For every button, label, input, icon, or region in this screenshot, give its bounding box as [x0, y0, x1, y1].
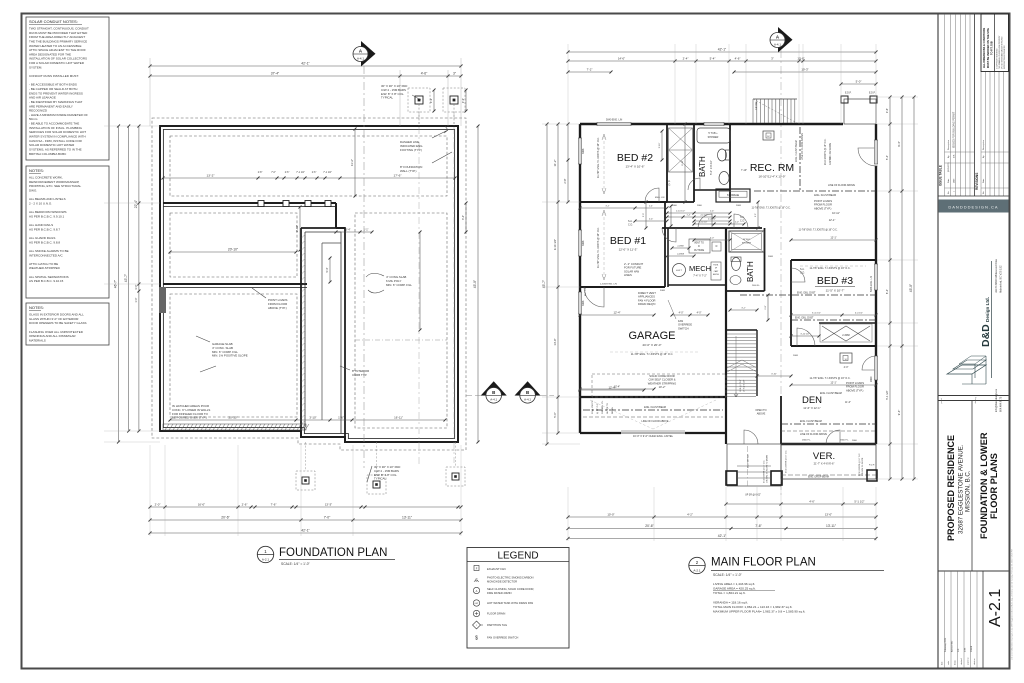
- svg-text:HOT WATER TANK WITH DRAIN PAN: HOT WATER TANK WITH DRAIN PAN: [487, 601, 533, 605]
- svg-text:drawn: drawn: [954, 660, 957, 665]
- svg-text:LIVING AREA = 1,443.96 sq.ft.: LIVING AREA = 1,443.96 sq.ft.: [713, 582, 755, 586]
- svg-text:12'-4": 12'-4": [613, 310, 620, 314]
- svg-text:LINES: LINES: [624, 273, 632, 277]
- svg-text:ENG. DR. BM.: ENG. DR. BM.: [748, 453, 750, 468]
- svg-text:2'-4": 2'-4": [683, 56, 689, 60]
- svg-text:11-7/8" ENG. TJ JOISTS @ 16" O: 11-7/8" ENG. TJ JOISTS @ 16" O.C.: [751, 207, 790, 210]
- svg-text:BED #2: BED #2: [617, 152, 653, 164]
- svg-text:FIRE RATED 20MIN: FIRE RATED 20MIN: [487, 591, 511, 595]
- svg-text:3": 3": [771, 56, 774, 60]
- svg-text:42'-1": 42'-1": [718, 47, 727, 51]
- svg-text:A-4.1: A-4.1: [774, 42, 781, 46]
- section marker B right of foundation plan: [481, 381, 507, 395]
- svg-text:7'-0": 7'-0": [324, 515, 331, 519]
- svg-text:DIRECT VENT: DIRECT VENT: [638, 291, 656, 295]
- svg-text:20'-10": 20'-10": [228, 247, 239, 251]
- foundation left dimension col overall: [118, 126, 120, 442]
- svg-text:SELF CLOSING, SOLID CORE DOOR,: SELF CLOSING, SOLID CORE DOOR,: [487, 587, 534, 591]
- den to veranda door arc: [826, 430, 840, 444]
- svg-text:OVERRIDE: OVERRIDE: [678, 323, 692, 327]
- svg-text:2X10 JOISTS @ 16" O.C.: 2X10 JOISTS @ 16" O.C.: [859, 453, 861, 476]
- foundation bottom dimension row 2: [150, 519, 461, 521]
- pad right dims: [465, 90, 467, 111]
- svg-text:MIN. 1% POSITIVE SLOPE: MIN. 1% POSITIVE SLOPE: [212, 354, 248, 358]
- bed3 walls: [791, 259, 876, 261]
- svg-text:No.: No.: [983, 190, 985, 194]
- column grid dashed lines: [418, 112, 420, 467]
- exterior stairs top: [752, 99, 754, 123]
- svg-text:2'-6": 2'-6": [242, 502, 248, 506]
- bath1 tub: [697, 128, 730, 143]
- foundation left dimension col segments: [138, 126, 140, 431]
- svg-text:TYPICAL: TYPICAL: [374, 477, 386, 481]
- svg-text:ISSUE TABLE: ISSUE TABLE: [939, 165, 943, 186]
- svg-text:1'-6": 1'-6": [338, 415, 344, 419]
- svg-text:AS PER B.C.B.C. 9.8.7: AS PER B.C.B.C. 9.8.7: [29, 227, 60, 231]
- svg-text:2'-4 1/2": 2'-4 1/2": [708, 218, 716, 220]
- front door swing: [744, 430, 758, 444]
- den dash lines: [781, 423, 876, 425]
- svg-text:FOOTING (TYP.): FOOTING (TYP.): [400, 148, 422, 152]
- svg-text:12'-0" X 11'-3": 12'-0" X 11'-3": [619, 248, 638, 252]
- svg-text:FLOOR DRAIN: FLOOR DRAIN: [487, 612, 505, 616]
- foundation bottom dimension row 1: [150, 506, 461, 508]
- svg-text:NOTES:: NOTES:: [29, 305, 44, 310]
- svg-text:20'-10": 20'-10": [229, 415, 238, 419]
- svg-text:VENT TO: VENT TO: [694, 243, 704, 245]
- svg-text:FURN.: FURN.: [713, 265, 719, 267]
- svg-text:E.D.P.: E.D.P.: [869, 93, 876, 95]
- svg-text:H.W.T: H.W.T: [676, 270, 683, 272]
- svg-text:SOLID CORE DOOR: SOLID CORE DOOR: [649, 374, 674, 378]
- svg-text:5'-4": 5'-4": [710, 56, 716, 60]
- svg-text:C COPYRIGHT RESERVED.: C COPYRIGHT RESERVED.: [997, 48, 999, 69]
- legend floor drain: [473, 610, 479, 616]
- svg-text:3'-10": 3'-10": [771, 373, 777, 375]
- svg-text:D.K.: D.K.: [953, 154, 955, 158]
- svg-text:FAN OVERRIDE SWITCH: FAN OVERRIDE SWITCH: [487, 636, 518, 640]
- svg-text:2X10 JOISTS: 2X10 JOISTS: [592, 400, 594, 414]
- svg-text:16'-0" X 9'-0" OHGD ENG. LINTE: 16'-0" X 9'-0" OHGD ENG. LINTEL: [633, 434, 674, 438]
- svg-text:PROPOSED RESIDENCE: PROPOSED RESIDENCE: [946, 435, 956, 541]
- storage closet: [716, 189, 750, 202]
- issue table bottom border: [938, 195, 1009, 197]
- svg-text:INTERCONNECTED A/C: INTERCONNECTED A/C: [29, 253, 64, 257]
- bath1 sink: [719, 172, 729, 185]
- svg-text:ENG. FLUSH BEAM: ENG. FLUSH BEAM: [644, 406, 666, 409]
- svg-text:BE POURED OVER (TYP.): BE POURED OVER (TYP.): [172, 416, 207, 420]
- svg-text:45'-9": 45'-9": [473, 279, 477, 288]
- svg-text:ENG. FLUSH BEAM: ENG. FLUSH BEAM: [800, 420, 822, 423]
- svg-text:C/W MIN. 2% SLOPE: C/W MIN. 2% SLOPE: [862, 457, 864, 476]
- svg-text:ABOVE (TYP.): ABOVE (TYP.): [268, 306, 287, 310]
- joist direction arrow BED2: [603, 136, 605, 192]
- svg-text:11-7/8" ENG. TJ JOISTS @ 16" O: 11-7/8" ENG. TJ JOISTS @ 16" O.C.: [810, 377, 851, 380]
- main plan interior small dims: [667, 212, 730, 214]
- svg-text:12'-1": 12'-1": [830, 236, 836, 239]
- svg-text:9'-4": 9'-4": [897, 141, 901, 147]
- vent to outside box: [689, 239, 710, 253]
- svg-text:1'-1": 1'-1": [364, 228, 369, 231]
- svg-text:scale: scale: [948, 661, 950, 665]
- svg-text:3'-4": 3'-4": [346, 228, 351, 231]
- svg-text:11-7/8" ENG. TJ JOISTS @ 16" O: 11-7/8" ENG. TJ JOISTS @ 16" O.C.: [631, 352, 674, 356]
- svg-text:7'-4" X 7'-2": 7'-4" X 7'-2": [693, 274, 707, 278]
- svg-text:Abbotsford, BC V2S 1S2: Abbotsford, BC V2S 1S2: [1000, 265, 1003, 293]
- svg-text:AS PER B.C.B.C. 9.9.10.1: AS PER B.C.B.C. 9.9.10.1: [29, 214, 65, 218]
- garage top-left door arc: [584, 287, 604, 307]
- bath2 toilet: [732, 258, 741, 271]
- svg-text:ENG. FLUSH BEAM: ENG. FLUSH BEAM: [814, 194, 836, 197]
- svg-text:2'-6": 2'-6": [285, 172, 290, 174]
- hatched wall section at garage left: [159, 287, 166, 313]
- svg-text:CONDUIT RUNS INSTALLED MUST:: CONDUIT RUNS INSTALLED MUST:: [29, 74, 79, 78]
- svg-text:FOR FUTURE: FOR FUTURE: [624, 266, 642, 270]
- den bottom wall: [781, 443, 876, 445]
- svg-text:2660: 2660: [672, 205, 678, 207]
- svg-text:WEATHER-STRIPPED: WEATHER-STRIPPED: [29, 266, 61, 270]
- rec room smoke detector: [763, 131, 774, 140]
- interior wall bed2 south: [580, 201, 667, 203]
- svg-text:3'-10": 3'-10": [659, 142, 661, 148]
- svg-text:17'-6": 17'-6": [394, 173, 402, 177]
- svg-text:REC. RM: REC. RM: [750, 162, 794, 174]
- main plan left dim cols: [546, 124, 548, 444]
- svg-text:A-4.1: A-4.1: [357, 56, 364, 60]
- legend hot water tank: [473, 600, 479, 606]
- svg-text:SHOWER: SHOWER: [708, 136, 719, 139]
- svg-text:13'-11": 13'-11": [402, 515, 413, 519]
- svg-text:$: $: [475, 636, 478, 642]
- svg-text:3'-9": 3'-9": [429, 98, 433, 103]
- hall south wall: [662, 227, 762, 229]
- svg-text:LINE OF FLOOR ABOVE: LINE OF FLOOR ABOVE: [800, 433, 827, 436]
- main plan right dim cols: [889, 97, 891, 479]
- svg-text:3068: 3068: [582, 148, 585, 154]
- legend partition tag: [473, 621, 481, 629]
- svg-text:TYPICAL: TYPICAL: [381, 96, 393, 100]
- svg-text:VER.: VER.: [813, 451, 835, 462]
- bath2 sink: [730, 276, 741, 285]
- svg-text:20008: 20008: [971, 645, 973, 652]
- svg-text:A: A: [476, 589, 478, 593]
- svg-text:20'-6": 20'-6": [221, 515, 230, 519]
- svg-text:Description: Description: [982, 140, 985, 150]
- logo house wireframe: [947, 365, 986, 374]
- svg-text:UP 16R: UP 16R: [755, 101, 758, 110]
- svg-text:S.F.: S.F.: [958, 648, 960, 652]
- legend exhaust fan: [474, 566, 479, 571]
- svg-text:10'-8": 10'-8": [797, 56, 804, 60]
- svg-text:7'-6": 7'-6": [271, 502, 277, 506]
- svg-text:20'-6": 20'-6": [645, 524, 654, 528]
- svg-text:5'-0": 5'-0": [856, 79, 862, 83]
- svg-text:2-4 1/2": 2-4 1/2": [701, 214, 708, 216]
- svg-text:February 2021: February 2021: [944, 637, 947, 652]
- svg-text:4'-0": 4'-0": [844, 366, 849, 369]
- svg-text:Description: Description: [947, 140, 950, 150]
- entry steps: [737, 465, 771, 467]
- svg-text:MUST BE VERIFIED ON THE SITE: MUST BE VERIFIED ON THE SITE: [987, 28, 990, 68]
- svg-text:1'-4": 1'-4": [687, 214, 691, 216]
- garage dim 12-4 lower: [580, 389, 644, 391]
- title block divider above project: [938, 395, 1009, 397]
- svg-text:7'-0": 7'-0": [271, 172, 276, 174]
- svg-text:604.464.9175: 604.464.9175: [1000, 396, 1003, 412]
- svg-text:2'-0": 2'-0": [155, 502, 161, 506]
- garage rear wall: [580, 396, 726, 398]
- closet bifold doors: [669, 128, 693, 172]
- svg-text:2X10 JOISTS @ 16" O.C.: 2X10 JOISTS @ 16" O.C.: [764, 460, 766, 483]
- svg-text:AS PER B.C.B.C. 9.8.8: AS PER B.C.B.C. 9.8.8: [29, 240, 60, 244]
- svg-text:BED #1: BED #1: [610, 235, 646, 247]
- bed3 smoke detector: [840, 353, 852, 363]
- svg-text:2668: 2668: [736, 205, 742, 207]
- svg-text:11-7/8" ENG. TJ JOISTS @ 16" O: 11-7/8" ENG. TJ JOISTS @ 16" O.C.: [597, 137, 600, 178]
- foundation outer wall: [160, 126, 458, 442]
- svg-text:PARTITION TAG: PARTITION TAG: [487, 623, 507, 627]
- pad column stub lines to wall: [418, 104, 420, 126]
- svg-text:ISSUED FOR BUILDING PERMIT: ISSUED FOR BUILDING PERMIT: [953, 111, 956, 148]
- legend box: [467, 548, 569, 649]
- entry side wall: [725, 228, 727, 444]
- svg-text:3'-10": 3'-10": [309, 415, 316, 419]
- interior foundation wall vertical right of upper room: [335, 203, 337, 228]
- svg-text:SHOWER: SHOWER: [742, 243, 752, 245]
- svg-text:POINT LOADS: POINT LOADS: [846, 381, 864, 385]
- svg-text:4'-6": 4'-6": [735, 56, 741, 60]
- svg-text:5040 ENG. L/N: 5040 ENG. L/N: [606, 119, 622, 122]
- main plan top dim row 4 veranda: [841, 83, 876, 85]
- svg-text:3'-1": 3'-1": [741, 307, 746, 309]
- svg-text:13'-2": 13'-2": [207, 173, 215, 177]
- svg-text:2668: 2668: [768, 256, 774, 258]
- svg-text:WEATHER STRIPPING: WEATHER STRIPPING: [648, 381, 676, 385]
- svg-text:46'-7": 46'-7": [114, 279, 118, 288]
- svg-text:3068: 3068: [582, 240, 585, 246]
- svg-text:DEN: DEN: [802, 395, 822, 406]
- section marker A top of foundation plan: [361, 41, 376, 67]
- section marker A top of main floor plan: [778, 27, 793, 53]
- title block divider line: [937, 14, 939, 668]
- svg-text:2X10 JOISTS @ 16" O.C.: 2X10 JOISTS @ 16" O.C.: [825, 138, 827, 165]
- svg-text:2660: 2660: [852, 440, 858, 442]
- exterior footing dashed line: [152, 118, 466, 450]
- svg-text:DWG.: DWG.: [29, 188, 37, 192]
- main plan top dim row segments: [568, 60, 876, 62]
- svg-text:ENG. FLUSH BEAM: ENG. FLUSH BEAM: [795, 140, 798, 162]
- svg-text:2-3068: 2-3068: [842, 334, 850, 337]
- svg-text:16'-11": 16'-11": [394, 415, 403, 419]
- svg-text:19'-3": 19'-3": [801, 67, 808, 71]
- svg-text:9'-10": 9'-10": [682, 160, 684, 166]
- exterior glass notes box: [26, 303, 109, 345]
- svg-text:10'-2": 10'-2": [659, 385, 666, 389]
- svg-text:11-7/8" ENG. TJ JOISTS @ 16" O: 11-7/8" ENG. TJ JOISTS @ 16" O.C.: [810, 267, 851, 270]
- slab centre dashed lines: [355, 339, 447, 341]
- footing dashed inset right slab area: [355, 213, 447, 428]
- svg-text:2'-6": 2'-6": [312, 172, 317, 174]
- bath2 shower: [729, 231, 764, 252]
- svg-text:BATH: BATH: [698, 156, 707, 177]
- svg-text:MAIN FLOOR PLAN: MAIN FLOOR PLAN: [711, 557, 816, 569]
- svg-text:42'-1": 42'-1": [301, 61, 310, 65]
- leader to pad: [412, 95, 421, 100]
- svg-text:MONOXIDE DETECTOR: MONOXIDE DETECTOR: [487, 579, 517, 583]
- garage front wall with door opening: [580, 432, 726, 434]
- svg-text:WALL (TYP.): WALL (TYP.): [400, 169, 416, 173]
- svg-text:A-2.1: A-2.1: [987, 589, 1004, 627]
- svg-text:2668: 2668: [793, 355, 799, 357]
- svg-text:11-7/8" ENG. TJ JOISTS @ 16" O: 11-7/8" ENG. TJ JOISTS @ 16" O.C.: [798, 229, 837, 232]
- svg-text:2'-0": 2'-0": [755, 213, 757, 217]
- svg-text:14'-0": 14'-0": [618, 56, 625, 60]
- svg-text:SCALE: 1/4" = 1'-0": SCALE: 1/4" = 1'-0": [713, 573, 743, 577]
- svg-text:ENG. L/N: ENG. L/N: [585, 287, 587, 296]
- svg-text:- HAVE A MINIMUM INSIDE DIAMET: - HAVE A MINIMUM INSIDE DIAMETER OF: [29, 113, 88, 117]
- solar conduit notes box: [26, 17, 109, 160]
- column pad top right with dashed footing: [443, 88, 465, 112]
- svg-text:4'-0": 4'-0": [710, 237, 715, 239]
- small step dims right side: [465, 203, 467, 232]
- svg-text:3'-4": 3'-4": [462, 215, 465, 220]
- title block group: [938, 14, 1014, 668]
- svg-text:7'-1 1/2": 7'-1 1/2": [296, 172, 305, 174]
- svg-text:TOTAL MAIN FLOOR: 1,864.21 + 1: TOTAL MAIN FLOOR: 1,864.21 + 113.16 = 1,…: [713, 605, 792, 609]
- svg-text:11'-0": 11'-0": [845, 401, 851, 404]
- svg-text:CABT: CABT: [714, 270, 719, 273]
- footing dashed inset top room: [170, 136, 447, 196]
- svg-text:13'-11": 13'-11": [826, 524, 837, 528]
- svg-text:5'-0": 5'-0": [553, 412, 557, 418]
- stair side walls: [726, 329, 757, 331]
- hwt circle: [673, 264, 686, 277]
- section marker line A main plan: [780, 50, 782, 497]
- interior foundation wall horizontal mid: [163, 283, 307, 285]
- svg-text:UP 3R @ 6-02": UP 3R @ 6-02": [745, 495, 761, 497]
- svg-text:9'-4": 9'-4": [897, 410, 901, 416]
- svg-text:1'-0": 1'-0": [134, 297, 138, 302]
- main plan top dim row 3: [568, 71, 611, 73]
- svg-text:A-4.1: A-4.1: [490, 398, 497, 402]
- veranda outline: [781, 444, 876, 479]
- svg-text:C.O.: C.O.: [628, 223, 633, 226]
- svg-text:3'-0": 3'-0": [134, 284, 138, 289]
- svg-text:6'-4": 6'-4": [885, 289, 889, 294]
- svg-text:4'-0 1/2": 4'-0 1/2": [855, 312, 863, 314]
- joist direction arrow BED3: [800, 265, 866, 267]
- danddesign.ca dark band: [939, 200, 1009, 213]
- svg-text:FROM FLOOR: FROM FLOOR: [846, 385, 864, 389]
- svg-text:ALL DIMENSIONS & CONDITIONS: ALL DIMENSIONS & CONDITIONS: [983, 27, 986, 68]
- svg-text:3'-11 1/2": 3'-11 1/2": [812, 312, 821, 314]
- extension lines top: [149, 58, 151, 126]
- general notes box: [26, 166, 109, 298]
- svg-text:AS PER B.C.B.C. 9.10.15: AS PER B.C.B.C. 9.10.15: [29, 279, 64, 283]
- svg-text:2860: 2860: [870, 376, 873, 382]
- hatched band at garage bottom wall: [163, 424, 306, 430]
- svg-text:3'-9": 3'-9": [461, 98, 465, 103]
- teleposts on interior wall: [258, 201, 264, 207]
- main right extension lines: [877, 96, 918, 98]
- svg-text:project no: project no: [967, 658, 970, 665]
- svg-text:SWITCH: SWITCH: [678, 326, 689, 330]
- footing dashed inset middle room: [170, 213, 297, 277]
- main plan interior small dims extra: [580, 207, 667, 209]
- main bottom extension lines: [567, 487, 569, 541]
- stair cut line: [727, 360, 757, 368]
- garage slope dashed: [590, 400, 716, 429]
- svg-text:D.W.: D.W.: [965, 647, 967, 652]
- svg-text:5046 ENG. L/N: 5046 ENG. L/N: [870, 276, 873, 292]
- svg-text:BATH: BATH: [746, 261, 755, 282]
- svg-text:C/W MIN. 2%: C/W MIN. 2%: [602, 401, 604, 414]
- svg-text:APPLIANCES: APPLIANCES: [638, 295, 655, 299]
- svg-text:13'-3": 13'-3": [325, 502, 332, 506]
- svg-text:(DD/MM/YY): (DD/MM/YY): [948, 162, 950, 172]
- svg-text:37'-4": 37'-4": [271, 71, 280, 75]
- svg-text:HWT: HWT: [475, 603, 479, 605]
- svg-text:2'-8": 2'-8": [258, 172, 263, 174]
- svg-text:3'-1": 3'-1": [606, 205, 610, 207]
- svg-text:11'-6" X 12'-1": 11'-6" X 12'-1": [803, 406, 820, 410]
- column pad bottom middle: [367, 475, 386, 494]
- svg-text:5'-0" X 6'-10": 5'-0" X 6'-10": [709, 160, 713, 175]
- svg-text:F.D.P.: F.D.P.: [869, 465, 875, 467]
- svg-text:SOLAR H/W: SOLAR H/W: [624, 269, 640, 273]
- mech room walls: [667, 228, 669, 287]
- svg-text:FAN: FAN: [678, 319, 683, 323]
- svg-text:C/W MIN. 2% SLOPE TO DRAIN: C/W MIN. 2% SLOPE TO DRAIN: [766, 455, 769, 483]
- main floor plan group: [542, 44, 918, 541]
- svg-text:By: By: [983, 156, 985, 158]
- svg-text:LINE OF FLOOR ABOVE: LINE OF FLOOR ABOVE: [801, 133, 804, 160]
- svg-text:ABOVE: ABOVE: [713, 273, 720, 276]
- column pad top left with dashed footing: [408, 88, 430, 112]
- svg-text:14'-9": 14'-9": [553, 338, 557, 345]
- svg-text:ABOVE (TYP.): ABOVE (TYP.): [814, 206, 832, 210]
- svg-text:OPEN TO: OPEN TO: [755, 409, 766, 412]
- svg-text:13'-0": 13'-0": [825, 512, 832, 516]
- svg-text:2660 F.L.: 2660 F.L.: [840, 440, 849, 442]
- svg-text:1'-4": 1'-4": [710, 210, 715, 212]
- svg-text:21'-7" X 4'-6"/6'-6": 21'-7" X 4'-6"/6'-6": [814, 462, 835, 466]
- svg-text:7'-10": 7'-10": [741, 169, 747, 172]
- interior foundation wall horizontal upper: [163, 202, 336, 204]
- svg-text:SYSTEM.: SYSTEM.: [29, 65, 42, 69]
- svg-text:4'-0": 4'-0": [679, 311, 684, 314]
- svg-text:13'-4" X 10'-6": 13'-4" X 10'-6": [626, 165, 645, 169]
- svg-text:BRITISH COLUMBIA BCBC: BRITISH COLUMBIA BCBC: [29, 152, 67, 156]
- svg-text:42'-1": 42'-1": [301, 528, 310, 532]
- svg-text:MISSION, B.C.: MISSION, B.C.: [965, 470, 972, 512]
- svg-text:LINE OF FLOOR ABOVE: LINE OF FLOOR ABOVE: [828, 184, 855, 187]
- bath2 walls: [764, 228, 766, 291]
- svg-text:D&D: D&D: [980, 324, 992, 347]
- svg-text:B: B: [526, 390, 529, 395]
- svg-text:2'- 2" CONDUIT: 2'- 2" CONDUIT: [624, 262, 643, 266]
- main left extension lines: [542, 123, 580, 125]
- svg-text:11'-5" X 10'-7": 11'-5" X 10'-7": [826, 289, 845, 293]
- svg-text:3068: 3068: [660, 290, 666, 292]
- svg-text:MIN. 6" COMP. FILL: MIN. 6" COMP. FILL: [386, 283, 412, 287]
- bed3 door arc: [797, 328, 815, 346]
- svg-text:POINT LOADS: POINT LOADS: [814, 199, 832, 203]
- footing dashed inset garage room: [170, 294, 297, 417]
- garage dim 12-4 upper: [580, 314, 654, 316]
- dimensions verification warning box: [981, 14, 1009, 72]
- svg-text:FAN 4 FLOOR: FAN 4 FLOOR: [638, 298, 656, 302]
